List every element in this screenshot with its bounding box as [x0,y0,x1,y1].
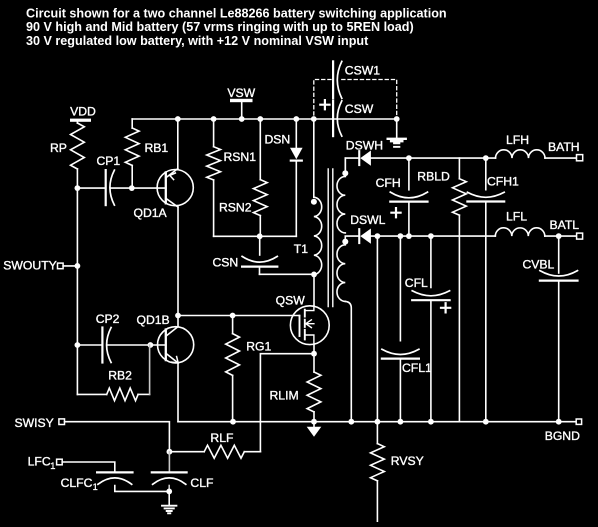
node CFL1 top [398,233,404,239]
wire LFC1 to CLFC1 [62,462,115,471]
node CSW left [311,116,317,122]
terminal SWISY [15,416,65,430]
resistor RLIM [270,354,321,422]
wire CSN bottom to T1 primary bottom [260,273,315,275]
inductor LFL [495,209,545,236]
power symbol VDD [70,105,96,122]
T1 secondary top phase dot [342,170,348,176]
svg-text:RB2: RB2 [108,369,132,383]
svg-text:30 V regulated low battery, wi: 30 V regulated low battery, with +12 V n… [26,34,369,48]
svg-text:CSW1: CSW1 [345,63,380,77]
node secondary return on BGND rail [348,419,354,425]
diode DSWH [346,138,383,166]
node RP/CP1 junction [75,185,81,191]
node CVBL top [556,233,562,239]
wire QD1A collector down to QD1B collector [177,207,179,327]
capacitor CP1 [97,154,121,205]
node CFH bottom [406,233,412,239]
svg-text:CSW: CSW [345,102,374,116]
transformer T1 primary winding [294,119,322,275]
T1 core [328,169,333,307]
terminal BATH [548,140,583,161]
capacitor CFH [376,158,428,236]
svg-text:CLFC: CLFC [61,476,93,490]
svg-text:CVBL: CVBL [523,257,555,271]
inductor LFH [496,133,546,158]
node RG1 top [230,313,236,319]
svg-text:RG1: RG1 [246,340,271,354]
capacitor CVBL [523,236,578,422]
transistor QD1A (PNP) [134,169,194,221]
svg-text:VDD: VDD [70,105,96,119]
transformer T1 secondary upper winding [337,158,345,233]
svg-text:CFH: CFH [376,176,401,190]
wire T1 primary bottom to QSW drain [313,275,315,306]
node RG1 bottom on BGND rail [230,419,236,425]
diode DSWL [350,213,385,244]
transformer T1 secondary lower winding [337,242,345,302]
svg-text:LFC: LFC [28,455,51,469]
node CP2/vert column [75,342,81,348]
svg-text:RBLD: RBLD [417,169,450,183]
terminal BGND [545,419,582,443]
node QD1B collector [175,313,181,319]
node SWOUTY junction [75,263,81,269]
wire LFH to BATH [545,157,576,159]
node CFH1 top [483,155,489,161]
wire high battery line (DSWH to LFH) [371,157,496,159]
node CFL1 bottom on BGND rail [398,419,404,425]
node RSN2 top [257,116,263,122]
wire QSW source down [313,345,315,354]
svg-text:RLIM: RLIM [270,389,299,403]
dashed optional wiring for CSW1 [314,80,397,116]
svg-text:BATH: BATH [548,140,580,154]
svg-text:T1: T1 [294,242,308,256]
T1 primary phase dot [311,199,317,205]
node CVBL bottom on BGND rail [556,419,562,425]
capacitor CLF [152,452,214,492]
svg-text:90 V high and Mid battery (57: 90 V high and Mid battery (57 vrms ringi… [26,20,414,34]
wire CP2 to QD1B base [107,344,166,346]
svg-text:QD1B: QD1B [137,313,170,327]
svg-text:1: 1 [93,482,98,492]
wire QSW source to RLF column [260,354,314,452]
svg-text:LFH: LFH [506,133,529,147]
svg-text:CLF: CLF [190,476,213,490]
wire LFL to BATL [545,235,577,237]
wire secondary tap to DSWL anode [345,236,358,242]
resistor RB2 [77,345,149,401]
resistor RSN1 [207,119,257,236]
node CFH top [406,155,412,161]
svg-text:LFL: LFL [506,209,527,223]
capacitor CSW [320,100,373,136]
transistor QD1B (NPN) [137,313,194,363]
wire CLFC1 bottom to ground node [115,486,169,492]
svg-text:CFL: CFL [405,276,428,290]
node RB1/CP1/base junction [129,185,135,191]
node SWISY/RLF/CLF [167,449,173,455]
wire QD1B collector to QSW gate [178,315,300,317]
svg-text:RVSY: RVSY [391,454,424,468]
wire secondary top to DSWH anode [345,158,358,173]
wire RP node down left column to RB2 [76,188,78,394]
resistor RBLD [417,158,466,422]
svg-text:DSWL: DSWL [350,213,385,227]
node CSN top junction [257,233,263,239]
ground arrow below RLIM [307,422,322,437]
svg-text:RP: RP [50,141,67,155]
svg-text:CSN: CSN [213,256,239,270]
ground (earth below CLF) [162,491,176,513]
svg-text:SWISY: SWISY [15,416,54,430]
node CFL bottom on BGND rail [428,419,434,425]
capacitor CFH1 [467,158,519,422]
node CSW right [394,116,400,122]
node RLIM bottom on BGND rail [311,419,317,425]
resistor RP [50,122,84,188]
T1 secondary centre-tap dot [342,239,348,245]
svg-text:RB1: RB1 [145,141,169,155]
node primary bottom / CSN [311,272,317,278]
resistor RVSY [371,422,424,522]
header text [26,6,447,47]
transistor QSW (N-MOSFET) [276,294,330,345]
svg-text:RLF: RLF [210,431,233,445]
node CLF ground [166,489,172,495]
svg-text:1: 1 [50,461,55,471]
node CFH1 bottom on BGND rail [483,419,489,425]
terminal SWOUTY [3,258,77,272]
svg-text:VSW: VSW [227,86,255,100]
wire CP1 to base node [110,187,166,189]
node RSN1 top [211,116,217,122]
node RVSY top on BGND rail [375,419,381,425]
svg-text:SWOUTY: SWOUTY [3,258,57,272]
resistor RB1 [125,119,168,188]
ground (stepped earth below CSW right node) [386,119,406,148]
terminal BATL [550,218,583,239]
capacitor CFL1 [382,236,432,422]
svg-text:BATL: BATL [550,218,580,232]
svg-text:CFH1: CFH1 [487,175,519,189]
node RVSY column top [375,233,381,239]
svg-text:QSW: QSW [276,294,306,308]
node QD1A emitter on rail [175,116,181,122]
svg-text:Circuit shown for a two channe: Circuit shown for a two channel Le88266 … [26,6,447,20]
wire top rail (RB1 to CSW right node) [132,118,397,120]
wire BGND rail [178,421,576,423]
capacitor CFL [405,236,450,422]
svg-text:BGND: BGND [545,429,580,443]
svg-text:CP2: CP2 [96,312,120,326]
capacitor CLFC1 [61,472,133,492]
wire CP2 left [77,344,102,346]
wire DSWL line down to BGND (RVSY column) [376,236,378,422]
capacitor CP2 [96,312,120,362]
svg-text:QD1A: QD1A [134,206,168,220]
node VSW on rail [239,116,245,122]
svg-text:RSN1: RSN1 [224,150,257,164]
svg-text:CP1: CP1 [97,154,121,168]
capacitor CSN [213,236,278,274]
capacitor CSW1 [333,61,380,98]
wire QD1A emitter to rail [177,119,179,169]
node CFL top [428,233,434,239]
resistor RLF [169,431,260,458]
resistor RSN2 [219,119,267,236]
wire RSN1/RSN2/DSN bottom [214,235,297,237]
svg-text:DSN: DSN [265,133,291,147]
svg-text:RSN2: RSN2 [219,201,252,215]
resistor RG1 [226,316,272,422]
svg-text:CFL1: CFL1 [402,361,432,375]
power symbol VSW [227,86,255,119]
node QSW source [311,351,317,357]
wire QD1B emitter down [177,363,179,422]
wire CP1 left [77,187,105,189]
node QD1B base junction [148,342,154,348]
node DSN top [293,116,299,122]
terminal LFC1 [28,455,63,471]
diode DSN [265,119,303,236]
wire T1 secondary bottom return [345,301,351,421]
svg-text:DSWH: DSWH [346,138,383,152]
wire low battery line (DSWL to LFL) [371,235,495,237]
wire SWISY to RLF/CLF node [65,422,170,452]
